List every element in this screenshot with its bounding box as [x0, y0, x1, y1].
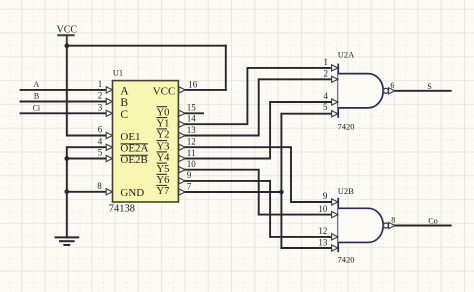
svg-text:S: S: [427, 82, 432, 91]
svg-text:11: 11: [187, 148, 196, 158]
IC pin arrows left: [106, 87, 112, 195]
wire VCC rail top: [67, 45, 226, 47]
svg-text:VCC: VCC: [153, 86, 176, 98]
svg-text:2: 2: [324, 69, 329, 79]
wire OE1 to VCC rail: [67, 46, 107, 136]
svg-text:8: 8: [97, 181, 102, 191]
svg-text:7420: 7420: [338, 121, 355, 131]
wire Co output: [393, 225, 451, 227]
IC U1 74138 body: [113, 81, 179, 202]
IC labels Y0-Y7: [157, 108, 171, 198]
svg-text:3: 3: [98, 102, 103, 112]
svg-text:1: 1: [98, 79, 103, 89]
svg-text:Y4: Y4: [157, 153, 171, 164]
svg-text:1: 1: [324, 57, 329, 67]
wire Y1 to U2A pin1: [184, 68, 338, 124]
ground bar 1: [56, 236, 79, 238]
junction Y7: [279, 190, 284, 195]
svg-text:9: 9: [323, 191, 328, 201]
wire S output: [393, 90, 451, 92]
wire Y2 to U2A pin2: [184, 79, 338, 135]
wire OE2A to ground rail: [67, 147, 107, 237]
wire pin16 VCC: [184, 89, 226, 91]
svg-text:9: 9: [187, 170, 192, 180]
junction OE2B: [65, 156, 70, 161]
IC pin numbers right: [187, 79, 198, 191]
ground bar 2: [60, 240, 74, 242]
svg-text:13: 13: [318, 237, 328, 247]
svg-text:B: B: [34, 92, 39, 101]
svg-text:VCC: VCC: [57, 24, 78, 35]
svg-text:13: 13: [187, 125, 197, 135]
svg-text:C: C: [120, 109, 128, 121]
wire Y5 to U2B pin10: [184, 170, 338, 215]
wire Y7 horizontal: [184, 191, 281, 193]
svg-text:16: 16: [188, 79, 198, 89]
svg-text:4: 4: [324, 91, 329, 101]
svg-text:A: A: [120, 85, 129, 97]
wire Y6 to U2B pin12: [184, 181, 338, 237]
svg-text:4: 4: [98, 136, 103, 146]
svg-text:7: 7: [187, 181, 192, 191]
wire input Ci: [21, 112, 107, 114]
svg-text:A: A: [34, 80, 40, 89]
svg-text:Y0: Y0: [157, 108, 170, 119]
wire input B: [21, 101, 107, 103]
svg-text:10: 10: [187, 159, 197, 169]
svg-text:Y5: Y5: [157, 164, 170, 175]
power VCC symbol stem: [66, 35, 68, 45]
wire Y7 to U2A pin5: [281, 113, 338, 115]
svg-text:8: 8: [391, 216, 395, 225]
svg-text:10: 10: [318, 204, 328, 214]
svg-text:74138: 74138: [109, 204, 135, 215]
wire OE2B: [67, 158, 107, 160]
U2A pin numbers: [323, 57, 329, 112]
Y0-Y7 overbars: [157, 107, 168, 186]
svg-text:Y1: Y1: [157, 118, 170, 129]
svg-text:OE2B: OE2B: [120, 154, 147, 166]
svg-text:12: 12: [187, 136, 196, 146]
svg-text:Y3: Y3: [157, 141, 170, 152]
svg-text:U2A: U2A: [338, 50, 355, 60]
svg-text:Co: Co: [428, 217, 438, 226]
power VCC symbol bar: [58, 34, 73, 36]
wire VCC rail drop to pin16: [225, 46, 227, 90]
junction GND: [65, 190, 70, 195]
U2B input arrows: [332, 199, 395, 251]
wire Y7 to U2B pin13: [281, 247, 338, 249]
pin Y0 stub: [184, 112, 203, 114]
svg-text:6: 6: [98, 125, 103, 135]
U2B pin numbers: [318, 191, 328, 247]
IC pin arrows right: [179, 87, 185, 195]
svg-text:5: 5: [98, 148, 103, 158]
svg-text:14: 14: [187, 113, 197, 123]
svg-text:2: 2: [98, 91, 103, 101]
svg-text:Y2: Y2: [157, 130, 170, 141]
svg-text:15: 15: [187, 103, 197, 113]
gate U2B 7420 body: [338, 198, 388, 252]
svg-text:Y7: Y7: [157, 186, 170, 197]
svg-text:6: 6: [390, 81, 394, 90]
svg-text:OE1: OE1: [120, 131, 140, 143]
wire Y4 to U2A pin4: [184, 102, 338, 159]
junction VCC rail: [65, 43, 70, 48]
ground bar 3: [64, 244, 69, 246]
svg-text:Ci: Ci: [33, 103, 41, 112]
svg-text:OE2A: OE2A: [120, 143, 148, 155]
svg-text:GND: GND: [120, 187, 144, 199]
svg-text:U2B: U2B: [338, 186, 354, 196]
wire GND pin8: [67, 191, 107, 193]
svg-text:B: B: [120, 97, 128, 109]
gate U2A 7420 body: [338, 64, 388, 118]
wire input A: [21, 89, 107, 91]
svg-text:7420: 7420: [338, 254, 355, 264]
svg-text:12: 12: [318, 226, 327, 236]
svg-text:U1: U1: [113, 68, 123, 78]
svg-text:5: 5: [323, 102, 328, 112]
IC pin numbers left: [97, 79, 103, 191]
svg-text:Y6: Y6: [157, 175, 170, 186]
U2A input arrows: [332, 65, 395, 117]
wire Y7 vertical: [280, 114, 282, 248]
wire Y3 to U2B pin9: [184, 147, 338, 202]
